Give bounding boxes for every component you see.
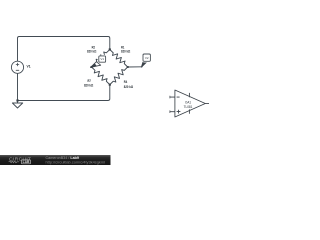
logo zigzag: [9, 161, 19, 163]
resistor R2: [92, 50, 110, 68]
voltage source V1: [11, 61, 23, 73]
svg-text:TL081: TL081: [184, 105, 193, 109]
op-amp OA1: [170, 90, 209, 117]
svg-text:V2: V2: [145, 56, 149, 60]
svg-text:http://circuitlab.com/c/4ty3k4: http://circuitlab.com/c/4ty3k4sgkml: [46, 160, 106, 164]
svg-text:820 kΩ: 820 kΩ: [124, 85, 134, 89]
resistor R7: [92, 67, 110, 85]
svg-text:R4: R4: [124, 80, 127, 84]
svg-text:OA1: OA1: [185, 100, 191, 104]
wire bottom rail: [18, 85, 110, 101]
node right: [127, 66, 129, 68]
svg-text:820 kΩ: 820 kΩ: [121, 49, 131, 53]
wire to probe V2: [128, 66, 143, 68]
op-amp input signs: [177, 97, 181, 113]
node left: [91, 66, 93, 68]
svg-text:LAB: LAB: [23, 160, 30, 164]
node bottom: [109, 84, 111, 86]
svg-text:820 kΩ: 820 kΩ: [84, 83, 94, 87]
node top: [109, 48, 111, 50]
wire left bottom: [17, 74, 19, 101]
svg-text:820 kΩ: 820 kΩ: [87, 49, 97, 53]
logo LAB: [21, 160, 30, 164]
probe V1: [90, 54, 105, 67]
wire top rail: [18, 37, 110, 62]
resistor R4: [110, 67, 128, 85]
probe V2: [141, 54, 150, 67]
resistor R1: [110, 50, 128, 68]
svg-text:V1: V1: [27, 64, 31, 68]
watermark bar: [0, 155, 111, 165]
svg-text:V1: V1: [100, 57, 104, 61]
ground: [12, 101, 22, 109]
svg-text:R7: R7: [88, 79, 91, 83]
junction ground node: [16, 99, 18, 101]
